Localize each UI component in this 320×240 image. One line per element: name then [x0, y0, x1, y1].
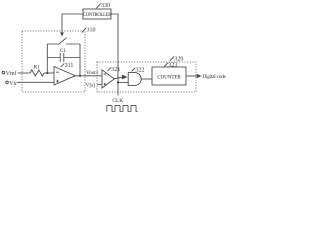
comparator plus sign [104, 83, 106, 85]
label 320 [170, 56, 184, 62]
clock waveform [107, 106, 138, 112]
wire controller right down to CLK node [111, 14, 118, 96]
label 321 [108, 67, 121, 73]
controller U330 box [83, 9, 111, 19]
feedback left wire [46, 44, 48, 73]
op-amp U311 [54, 67, 75, 86]
comparator U321 [102, 70, 114, 88]
label 323 [164, 63, 177, 69]
junction node CLK branch [117, 81, 119, 83]
dashed block 320 [97, 62, 196, 92]
svg-text:Vref: Vref [6, 70, 17, 77]
wire Vx to op-amp non-inverting input [17, 81, 55, 83]
svg-text:311: 311 [65, 63, 74, 69]
svg-text:330: 330 [101, 3, 110, 9]
svg-text:310: 310 [87, 27, 96, 33]
svg-text:CLK: CLK [112, 98, 123, 104]
op-amp minus sign [56, 71, 59, 73]
op-amp plus sign [56, 80, 59, 83]
arrowhead onto switch [60, 32, 64, 36]
feedback right wire [79, 44, 81, 76]
svg-text:V[s]: V[s] [86, 82, 95, 88]
wire counter output [186, 75, 197, 77]
capacitor C1 [47, 48, 80, 62]
svg-text:CONTROLLER: CONTROLLER [83, 13, 112, 18]
svg-text:323: 323 [168, 63, 177, 69]
svg-text:C1: C1 [60, 48, 67, 54]
svg-text:R1: R1 [34, 65, 41, 71]
svg-text:Vx: Vx [9, 81, 16, 87]
label 311 [61, 63, 74, 69]
wire controller left to switch arrow [62, 14, 83, 33]
svg-text:321: 321 [111, 67, 120, 73]
label 322 [132, 67, 145, 73]
resistor R1 [30, 70, 44, 76]
wire CLK to AND gate [118, 81, 128, 83]
wire AND gate to counter [141, 78, 152, 80]
wire R1 to op-amp inverting input [44, 72, 54, 74]
wire comparator to AND gate [114, 77, 121, 79]
input terminal Vx [6, 81, 17, 87]
svg-text:322: 322 [135, 67, 144, 73]
signal arrowhead into AND gate [122, 75, 128, 80]
wire V[s] to comparator [97, 83, 102, 85]
junction node at feedback tap [46, 72, 48, 74]
wire Vref to R1 [18, 72, 31, 74]
label 330 [97, 3, 111, 9]
svg-text:Digital code: Digital code [203, 74, 227, 80]
junction node on output [79, 75, 81, 77]
comparator minus sign [104, 73, 106, 75]
wire Vout1 to comparator [75, 75, 102, 77]
counter U323 box [152, 67, 186, 85]
svg-text:320: 320 [174, 56, 183, 62]
svg-text:COUNTER: COUNTER [157, 74, 181, 80]
input terminal Vref [2, 70, 16, 77]
label 310 [82, 27, 96, 33]
arrowhead digital code [197, 74, 202, 78]
dashed block 310 [22, 31, 85, 92]
AND gate U322 [128, 73, 141, 86]
reset switch S1 [47, 38, 80, 45]
